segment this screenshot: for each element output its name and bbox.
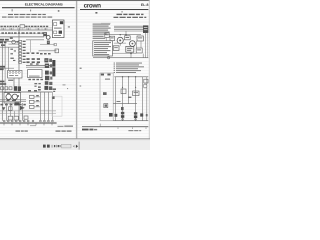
switch row S1 S2 S3 xyxy=(1,87,12,90)
wire v5 xyxy=(5,103,7,121)
row A2 small labels xyxy=(3,28,47,29)
solenoid box SV2 xyxy=(133,91,139,96)
filter box FL1 xyxy=(113,46,119,51)
left diagram title line 2 xyxy=(2,17,52,18)
labels above bus 7 xyxy=(28,90,37,91)
right header small mark xyxy=(95,12,97,14)
heater element H1 xyxy=(104,104,108,108)
label row F xyxy=(38,86,41,90)
right wire rv9 xyxy=(142,54,144,58)
label row G xyxy=(0,104,25,106)
tank inner mark xyxy=(103,92,107,95)
stray dot d xyxy=(67,88,68,89)
amplifier triangle A1 xyxy=(20,106,25,111)
connector pin stack CA xyxy=(19,40,26,63)
manifold junction dots xyxy=(122,76,137,88)
left page schematic base line xyxy=(0,122,57,124)
valve box C xyxy=(124,36,130,40)
label stack left xyxy=(0,81,6,85)
fuse labels above bus xyxy=(30,63,39,64)
wire v-mid xyxy=(29,40,31,53)
bottom component row box 1 xyxy=(8,116,12,120)
relay contact dashes xyxy=(10,41,18,61)
valve box V2 xyxy=(137,36,143,41)
bus wire 7 xyxy=(0,91,53,93)
faint panel box xyxy=(52,96,62,116)
bus tap line xyxy=(0,27,52,29)
wire h3 xyxy=(0,46,19,48)
wire v12 xyxy=(51,92,53,121)
right title tick xyxy=(121,11,124,13)
pump motor assembly M1 xyxy=(4,93,21,103)
inset note mark xyxy=(68,26,70,27)
wire k1 xyxy=(13,78,15,86)
tank outline box xyxy=(100,73,113,121)
junction dot j3 xyxy=(130,53,131,54)
right wire rv3 xyxy=(125,31,127,36)
lower wire lv1 xyxy=(115,77,117,121)
right header page code EL-8 xyxy=(141,3,149,7)
lower wire lv3 xyxy=(128,77,130,104)
right wire rv4 xyxy=(130,52,132,58)
branch label dash xyxy=(117,101,121,102)
check valve blob xyxy=(115,114,118,117)
wire h1 xyxy=(0,40,19,42)
key switch circle xyxy=(46,36,50,40)
bus wire 3 xyxy=(26,64,52,66)
base line ticks xyxy=(4,124,52,126)
inset detail box xyxy=(52,20,64,38)
crown logo xyxy=(84,2,102,9)
wire v2 xyxy=(4,41,6,99)
right bus line 2 xyxy=(114,27,148,29)
bus wire 7b xyxy=(0,113,56,115)
wire v3 xyxy=(18,30,20,121)
lower wire lv2 xyxy=(122,77,124,121)
wire m1b xyxy=(40,44,55,46)
left diagram title line 1 xyxy=(8,14,46,15)
wire v9 xyxy=(39,92,41,121)
wire v4 xyxy=(8,47,10,70)
right wire rv6 xyxy=(140,41,142,48)
right wire rv2 xyxy=(119,44,121,46)
toolbar page number glyphs xyxy=(54,145,61,148)
orifice mark xyxy=(128,97,131,98)
right wire rv8 xyxy=(147,33,149,58)
rail tick xyxy=(51,30,54,32)
terminal block TB1 xyxy=(20,25,25,28)
pin labels under U1 xyxy=(28,79,43,80)
fuse blob F2 xyxy=(18,86,21,91)
lower manifold bottom line xyxy=(113,120,148,122)
bus dashes mid xyxy=(34,83,40,87)
label row D xyxy=(26,52,38,54)
right bus line 3 xyxy=(114,28,148,30)
wire b1 xyxy=(0,67,14,69)
diode D1 xyxy=(2,107,5,110)
left header tick mark xyxy=(11,9,14,11)
left header tick mark 2 xyxy=(29,10,32,12)
relief circle RC xyxy=(143,84,147,88)
right diagram title line 2 xyxy=(114,17,147,18)
row A drop wires xyxy=(2,27,47,30)
contactor cluster Q xyxy=(47,41,50,45)
cylinder pair B xyxy=(134,112,137,120)
stray mark a xyxy=(80,68,82,69)
dense junction cluster J xyxy=(45,64,52,68)
left page header title ELECTRICAL DIAGRAMS xyxy=(25,2,64,6)
bus tap line 2 xyxy=(0,33,44,35)
wire v11 xyxy=(47,92,49,121)
horn circle H xyxy=(12,40,16,44)
capacitor box C1 xyxy=(9,107,13,111)
lower wire lv5 xyxy=(142,77,144,121)
footer tick 3 xyxy=(145,127,147,129)
footer tick 2 xyxy=(131,127,133,129)
small port mark xyxy=(146,114,148,116)
terminal circles row xyxy=(3,120,53,122)
strainer blob xyxy=(140,113,143,116)
lower manifold top line xyxy=(114,76,148,78)
lower wire lv4 xyxy=(135,77,137,121)
right wire rh1 xyxy=(114,42,126,44)
branch line xyxy=(113,103,137,105)
label row C xyxy=(40,53,51,55)
relief valve box RV xyxy=(144,79,148,83)
under-line note xyxy=(30,124,36,127)
toolbar separator xyxy=(78,142,80,150)
solenoid stack V1 xyxy=(29,95,40,108)
relay label xyxy=(8,80,13,81)
label row E xyxy=(26,58,40,63)
panel corner mark xyxy=(52,96,54,99)
solenoid box SV1 xyxy=(121,89,126,94)
bottom component row box 3 xyxy=(24,116,28,119)
right wire rv5 xyxy=(135,41,137,48)
right wire rv7 xyxy=(145,33,147,58)
right footer drawing number center xyxy=(128,130,141,131)
component label row A xyxy=(0,26,48,27)
bottom component row box 2 xyxy=(14,116,18,120)
test point box TP1 xyxy=(55,49,59,53)
tank inner arrow xyxy=(105,79,110,80)
toolbar prev arrow xyxy=(73,145,75,148)
component label row B xyxy=(1,32,43,34)
left footer sheet ref 1 xyxy=(58,125,74,127)
gauge circle G1 xyxy=(108,57,110,59)
bus legend block xyxy=(143,25,148,33)
wire m1 xyxy=(26,39,44,41)
bus wire 1 xyxy=(0,29,53,31)
parts list box xyxy=(93,41,113,56)
left page header rule xyxy=(2,7,75,9)
left header section number xyxy=(58,10,60,12)
relay box K1 xyxy=(8,70,22,78)
big module box U1 xyxy=(28,70,42,78)
battery label cluster xyxy=(0,37,13,46)
notes column rows xyxy=(93,24,111,39)
sender box B xyxy=(110,36,115,40)
toolbar zoom level mark xyxy=(51,145,53,148)
right diagram title line 1 xyxy=(117,14,144,15)
footer tick 1 xyxy=(117,127,119,129)
lower wire lv6 xyxy=(146,77,148,121)
faint pencil note xyxy=(101,22,111,25)
toolbar button zoom-in xyxy=(47,145,50,148)
wire v7 xyxy=(13,111,15,116)
wire v1 xyxy=(1,39,3,120)
junction dot j2 xyxy=(120,34,121,35)
valve box D xyxy=(136,48,142,53)
toolbar button zoom-out xyxy=(43,145,46,148)
sensor blob xyxy=(15,102,20,105)
bus wire 2 xyxy=(0,36,44,38)
wire h2 xyxy=(8,43,19,45)
bus wire 8 xyxy=(0,110,56,112)
wire v6 xyxy=(9,103,11,116)
battery terminal labels xyxy=(0,66,5,70)
bus wire 6 xyxy=(0,100,26,102)
bus wire 4 xyxy=(26,66,52,68)
controller module dark bar xyxy=(52,60,55,76)
right wire rv1 xyxy=(105,37,107,53)
right page header rule xyxy=(80,9,148,11)
junction dot j1 xyxy=(125,34,126,35)
motor circle M2 xyxy=(130,41,136,47)
right bus line 4 xyxy=(114,30,148,32)
sender box A xyxy=(105,33,109,37)
sensor mark SM xyxy=(53,88,56,92)
distribution line xyxy=(93,57,148,59)
contactor cluster P xyxy=(43,32,47,36)
resistor bank cluster xyxy=(44,58,52,62)
right feed line xyxy=(105,34,141,36)
left footer sheet ref 2 xyxy=(56,130,72,131)
right wire rh2 xyxy=(106,53,136,55)
right footer rule xyxy=(82,126,148,128)
right footer drawing number left xyxy=(82,129,97,131)
stray mark b xyxy=(80,85,82,86)
power module cluster PM xyxy=(44,71,52,90)
pump circle P1 xyxy=(117,37,123,43)
solenoid labels xyxy=(36,95,39,106)
bus wire 5 xyxy=(0,99,26,101)
tank valve mark xyxy=(109,113,113,117)
wire m2 with test point xyxy=(39,50,57,52)
end box E xyxy=(54,43,56,45)
controller hairline xyxy=(52,66,55,69)
stray label c xyxy=(63,84,66,85)
footer tick above xyxy=(99,124,101,127)
tee mark T1 xyxy=(121,107,124,110)
right bus line 1 xyxy=(114,25,148,27)
viewer toolbar xyxy=(0,139,150,150)
notes list 2 xyxy=(114,63,144,73)
cylinder pair A xyxy=(121,112,124,120)
valve box V3 xyxy=(126,46,134,52)
left footer drawing number xyxy=(16,130,28,131)
toolbar next arrow xyxy=(76,145,78,148)
toolbar page input field xyxy=(61,144,71,148)
wire v10 xyxy=(43,92,45,121)
wire v8 xyxy=(21,103,23,121)
fuse blob F1 xyxy=(14,86,17,91)
